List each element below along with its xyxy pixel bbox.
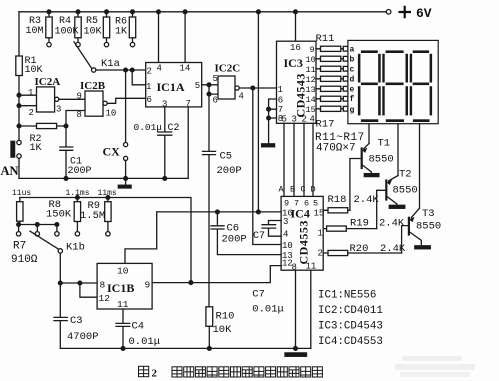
svg-text:0.01μ: 0.01μ	[134, 122, 163, 133]
wire IC2C out to IC3 pin1	[239, 86, 276, 90]
svg-text:2: 2	[318, 248, 323, 258]
svg-text:14: 14	[306, 95, 316, 105]
wire IC2A pin2	[17, 104, 36, 108]
transistor T3	[409, 124, 421, 246]
svg-text:2.4K: 2.4K	[380, 243, 406, 255]
resistor R2	[17, 123, 68, 128]
svg-text:C3: C3	[70, 315, 83, 327]
svg-text:2.4K: 2.4K	[354, 194, 380, 206]
svg-text:C7: C7	[253, 231, 265, 242]
wire IC3 pins 6,7,8 tie	[267, 99, 277, 144]
capacitor C4	[116, 309, 130, 350]
resistor R10	[206, 307, 213, 351]
wire mid ground rail	[19, 177, 188, 179]
ground IC3	[262, 144, 275, 147]
svg-text:200P: 200P	[68, 166, 92, 177]
wire IC3 pin4 to IC4	[312, 123, 314, 196]
svg-text:1: 1	[28, 88, 33, 98]
svg-text:1: 1	[146, 82, 151, 92]
resistor R7	[17, 198, 23, 225]
svg-text:C6: C6	[227, 222, 240, 234]
svg-text:B: B	[290, 185, 295, 195]
svg-text:T2: T2	[399, 168, 412, 180]
svg-text:11: 11	[117, 299, 129, 310]
capacitor C1	[60, 126, 73, 180]
resistor R18	[323, 208, 350, 213]
capacitor C5	[203, 94, 216, 307]
svg-text:4: 4	[157, 64, 162, 74]
svg-text:14: 14	[180, 64, 191, 74]
resistor R16	[316, 96, 348, 101]
svg-text:R10: R10	[216, 311, 235, 323]
svg-text:11us: 11us	[12, 189, 31, 198]
op-amp U IC1A box	[146, 63, 202, 107]
gate IC2A	[37, 87, 59, 112]
wire V1 latch net to IC4 pin10	[253, 88, 281, 245]
wire IC1A pin7 to rail	[187, 107, 189, 178]
svg-text:3: 3	[56, 105, 61, 115]
svg-text:IC2:CD4011: IC2:CD4011	[318, 305, 383, 317]
svg-text:200P: 200P	[222, 234, 247, 246]
svg-text:1K: 1K	[30, 143, 42, 154]
svg-text:T3: T3	[422, 208, 435, 220]
wire IC2A pin1	[17, 93, 36, 97]
svg-text:15: 15	[314, 208, 325, 218]
ground below CX	[118, 178, 131, 188]
svg-text:150K: 150K	[46, 209, 72, 221]
svg-text:IC2B: IC2B	[80, 80, 106, 92]
wire power net to IC4 pin16	[157, 210, 281, 214]
svg-text:8: 8	[77, 110, 82, 120]
svg-text:c: c	[350, 65, 355, 74]
resistor R4	[75, 10, 81, 47]
label display pins a-g	[350, 46, 355, 115]
svg-text:10K: 10K	[213, 324, 233, 336]
wire top +6V rail	[19, 11, 386, 13]
svg-text:R19: R19	[350, 217, 369, 229]
IC4 CD4553 box	[281, 196, 323, 270]
svg-text:8: 8	[292, 262, 297, 272]
svg-text:5: 5	[282, 115, 287, 125]
resistor R6	[129, 10, 135, 47]
faint watermark	[395, 356, 475, 377]
svg-text:e: e	[350, 85, 355, 94]
wire IC3 pin16	[294, 10, 298, 41]
svg-text:0.01μ: 0.01μ	[129, 336, 161, 348]
svg-text:IC1A: IC1A	[157, 80, 185, 94]
svg-text:9: 9	[284, 198, 289, 208]
svg-text:6: 6	[213, 96, 218, 106]
svg-text:1K: 1K	[115, 27, 127, 38]
svg-text:CX: CX	[103, 145, 121, 159]
resistor R15	[316, 86, 348, 91]
caption figure title 图2 三位数字显示电容测试表电路图	[139, 366, 149, 376]
resistor R9	[105, 198, 111, 237]
svg-text:3: 3	[292, 115, 297, 125]
svg-text:10K: 10K	[25, 65, 43, 76]
wire IC2B pin8	[66, 111, 85, 127]
wire T1 base	[350, 159, 362, 211]
svg-text:R18: R18	[328, 194, 347, 206]
resistor R17	[316, 106, 348, 111]
svg-text:C4: C4	[132, 321, 145, 333]
wire IC4 pin11 to ground rail	[310, 270, 312, 348]
svg-text:10: 10	[117, 266, 129, 277]
svg-text:7: 7	[186, 99, 191, 109]
svg-text:10: 10	[282, 241, 293, 251]
IC3 CD4543 box	[277, 41, 317, 123]
wire IC3 pin5 to IC4	[283, 123, 285, 196]
wire to IC1A pin1	[132, 70, 146, 85]
wire bottom ground rail	[60, 347, 310, 349]
resistor R3	[46, 10, 52, 47]
wire timing bus	[20, 196, 191, 283]
svg-text:470Ω×7: 470Ω×7	[316, 142, 356, 154]
wire IC1A pin4	[157, 10, 161, 63]
capacitor C6	[211, 212, 281, 255]
svg-text:5: 5	[313, 198, 318, 208]
svg-text:16: 16	[290, 43, 301, 53]
svg-text:2.4K: 2.4K	[379, 218, 405, 230]
digit 3 segments	[410, 50, 432, 122]
svg-text:2: 2	[29, 108, 34, 118]
svg-text:1.5M: 1.5M	[80, 210, 105, 222]
svg-text:D: D	[311, 185, 316, 195]
wire IC2B out to IC1A pin6	[107, 98, 146, 103]
LED display box	[348, 40, 438, 123]
wire IC1A pin14	[183, 10, 187, 63]
svg-text:6: 6	[147, 95, 152, 105]
svg-text:IC1B: IC1B	[107, 281, 134, 295]
svg-text:IC4: IC4	[291, 207, 310, 221]
svg-text:5: 5	[213, 74, 218, 84]
svg-text:910Ω: 910Ω	[11, 254, 38, 266]
wire IC4 pin8 to ground rail	[294, 270, 298, 350]
svg-text:a: a	[350, 46, 355, 55]
svg-text:2: 2	[302, 115, 307, 125]
digit 1 segments	[358, 50, 381, 122]
svg-text:1: 1	[278, 85, 283, 95]
svg-text:C7: C7	[252, 289, 265, 301]
svg-text:10K: 10K	[84, 26, 102, 37]
svg-text:3: 3	[283, 217, 288, 227]
svg-text:AN: AN	[1, 164, 19, 178]
svg-text:C2: C2	[168, 123, 180, 134]
svg-text:1.1ms: 1.1ms	[66, 189, 90, 198]
svg-text:2: 2	[152, 367, 158, 379]
wire left rail	[18, 12, 20, 140]
svg-text:R7: R7	[13, 241, 26, 253]
svg-text:f: f	[350, 95, 355, 104]
svg-text:R11: R11	[316, 33, 335, 45]
node CX terminals	[124, 70, 128, 180]
switch K1b contacts	[16, 223, 59, 236]
svg-text:IC4:CD4553: IC4:CD4553	[318, 336, 383, 348]
svg-text:b: b	[350, 56, 355, 65]
wire IC3 pin3 to IC4	[293, 123, 295, 196]
switch K1b arm	[30, 231, 63, 253]
svg-text:6: 6	[278, 96, 283, 106]
svg-text:9: 9	[310, 45, 315, 55]
gate IC2B	[85, 91, 107, 116]
svg-text:10M: 10M	[26, 26, 44, 37]
svg-text:6V: 6V	[416, 6, 432, 21]
wire IC2A out to IC2B pin9	[59, 98, 85, 100]
resistor R1	[16, 56, 22, 76]
resistor R19	[323, 226, 377, 231]
resistor R8	[74, 198, 80, 237]
ground IC4	[285, 353, 307, 356]
wire IC1A pin5 to IC2C	[202, 83, 218, 96]
svg-text:4: 4	[283, 230, 288, 240]
svg-text:R17: R17	[316, 119, 335, 131]
wire K1b pole to IC1B pin8	[58, 253, 97, 285]
resistor R14	[316, 76, 348, 81]
svg-text:9: 9	[145, 280, 151, 291]
wire IC1B pin10 to power net	[125, 212, 157, 264]
svg-text:12: 12	[99, 293, 111, 304]
node +6V terminal	[386, 10, 391, 15]
label +6V	[399, 6, 412, 18]
svg-text:A: A	[279, 185, 285, 195]
svg-text:4700P: 4700P	[67, 331, 99, 343]
svg-text:T1: T1	[378, 138, 391, 150]
svg-text:3: 3	[162, 99, 167, 109]
transistor T1	[362, 124, 372, 174]
gate IC2C	[218, 76, 239, 99]
resistor R13	[316, 66, 348, 71]
ground T1	[364, 174, 379, 177]
svg-text:R20: R20	[350, 243, 369, 255]
resistor R11	[316, 46, 348, 51]
wire V2 top rail to IC4 pin16 net	[257, 10, 261, 214]
wire K1a pole to IC1A pin2	[96, 68, 146, 72]
svg-text:d: d	[350, 75, 355, 84]
resistor R12	[316, 56, 348, 61]
switch K1a	[74, 42, 96, 72]
svg-text:IC2C: IC2C	[215, 63, 241, 75]
svg-text:IC3:CD4543: IC3:CD4543	[318, 320, 383, 332]
resistor R20	[323, 250, 401, 255]
svg-text:9: 9	[77, 92, 82, 102]
svg-text:IC1:NE556: IC1:NE556	[318, 290, 376, 302]
svg-text:C: C	[301, 185, 306, 195]
svg-text:8550: 8550	[416, 220, 441, 232]
wire AN to mid rail	[18, 158, 20, 178]
svg-text:IC3: IC3	[284, 56, 303, 70]
transistor T2	[386, 124, 398, 206]
capacitor C2	[158, 107, 172, 180]
capacitor C3	[54, 283, 67, 348]
wire to IC1B pin12	[80, 283, 97, 297]
svg-text:10: 10	[106, 109, 117, 119]
svg-text:2: 2	[147, 67, 152, 77]
svg-text:11ms: 11ms	[98, 189, 117, 198]
svg-text:IC2A: IC2A	[35, 76, 61, 88]
svg-text:200P: 200P	[217, 165, 242, 177]
svg-text:8: 8	[100, 280, 106, 291]
wire IC3 pin2 to IC4	[303, 123, 305, 196]
svg-text:8550: 8550	[393, 184, 418, 196]
svg-text:K1b: K1b	[66, 242, 85, 254]
wire T2 base	[377, 190, 387, 228]
svg-text:11: 11	[306, 261, 317, 271]
ground T3	[415, 246, 431, 249]
wire T3 base	[402, 226, 409, 253]
timer IC1B box	[97, 263, 152, 309]
svg-text:11: 11	[306, 65, 316, 75]
svg-text:K1a: K1a	[101, 58, 120, 70]
ground T2	[389, 205, 405, 208]
digit 2 segments	[382, 50, 408, 122]
push button AN	[11, 140, 21, 158]
wire IC1B pin9 to IC4 pin12	[152, 266, 281, 285]
svg-text:1: 1	[318, 228, 323, 238]
svg-text:4: 4	[310, 115, 315, 125]
svg-text:5: 5	[195, 81, 200, 91]
svg-text:0.01μ: 0.01μ	[252, 304, 284, 316]
svg-text:12: 12	[306, 75, 316, 85]
capacitor C7	[262, 221, 281, 237]
svg-text:13: 13	[306, 85, 316, 95]
svg-text:g: g	[350, 106, 355, 115]
svg-text:4: 4	[239, 92, 244, 102]
svg-text:C5: C5	[220, 151, 233, 163]
resistor R5	[103, 10, 109, 47]
svg-text:10: 10	[306, 55, 316, 65]
svg-text:100K: 100K	[55, 26, 79, 37]
svg-text:8550: 8550	[369, 154, 394, 166]
svg-text:CD4553: CD4553	[297, 220, 311, 264]
